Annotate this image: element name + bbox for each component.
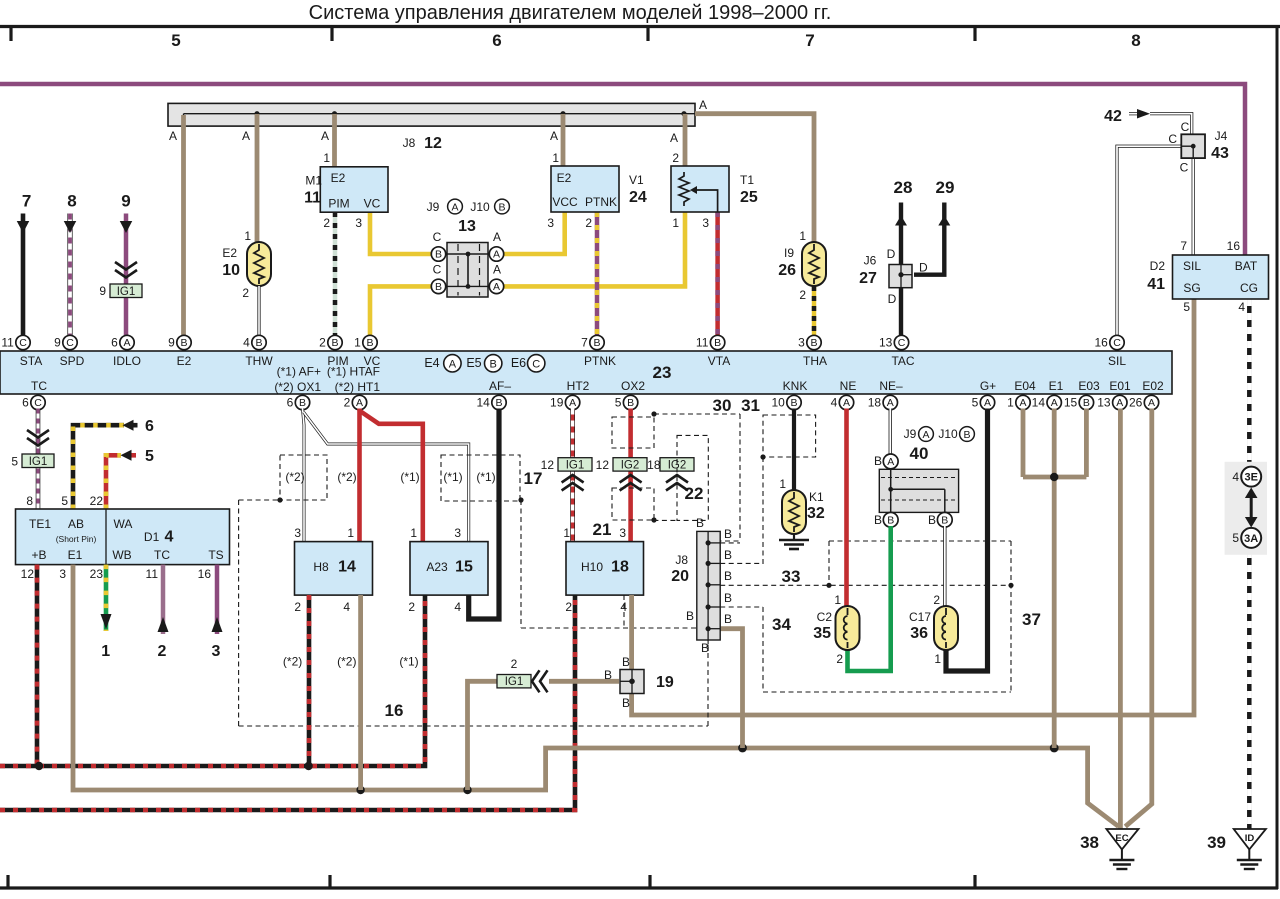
dashed net 33	[720, 584, 1011, 586]
dashed box (*2)	[280, 455, 327, 500]
svg-text:EC: EC	[1115, 833, 1128, 844]
svg-text:B: B	[941, 515, 948, 527]
wire IG1 connector to bus (brown)	[468, 681, 501, 790]
svg-text:3: 3	[212, 643, 221, 660]
svg-text:SG: SG	[1183, 281, 1200, 295]
svg-text:J4: J4	[1215, 129, 1228, 143]
svg-text:5: 5	[61, 494, 68, 508]
svg-text:18: 18	[647, 458, 661, 472]
svg-text:B: B	[686, 609, 694, 623]
svg-text:OX2: OX2	[621, 379, 645, 393]
svg-text:38: 38	[1080, 833, 1099, 852]
svg-text:B: B	[724, 548, 732, 562]
connector J4 43	[1181, 134, 1205, 158]
svg-text:11: 11	[696, 336, 709, 350]
svg-text:1: 1	[799, 229, 806, 243]
svg-text:A: A	[843, 397, 850, 409]
svg-text:IG1: IG1	[566, 460, 585, 472]
svg-text:C2: C2	[817, 610, 833, 624]
svg-text:4: 4	[831, 396, 838, 410]
svg-text:BAT: BAT	[1235, 259, 1258, 273]
svg-text:5: 5	[11, 455, 18, 469]
svg-text:18: 18	[868, 396, 882, 410]
svg-text:1: 1	[552, 151, 559, 165]
svg-text:PIM: PIM	[328, 197, 349, 211]
svg-text:1: 1	[347, 526, 354, 540]
wire green C2 pin2 to connector 40	[848, 526, 891, 671]
dashed box 34	[762, 607, 764, 692]
svg-text:18: 18	[611, 559, 629, 576]
svg-text:E1: E1	[1049, 379, 1064, 393]
svg-text:6: 6	[492, 31, 501, 50]
svg-text:IG1: IG1	[505, 676, 524, 688]
wire V1 PTNK to ECU (violet/yellow striped)	[595, 212, 600, 336]
wire ECU OX1 branch to A23 pin3 (white)	[304, 412, 469, 542]
wire 8 (SPD) violet/white striped	[67, 214, 72, 337]
svg-text:2: 2	[672, 151, 679, 165]
svg-text:PTNK: PTNK	[585, 195, 617, 209]
connector IG1 2 (horizontal)	[497, 675, 531, 688]
svg-text:3: 3	[454, 526, 461, 540]
svg-text:AF–: AF–	[489, 379, 511, 393]
svg-text:TS: TS	[208, 548, 223, 562]
svg-text:PTNK: PTNK	[584, 354, 616, 368]
svg-text:A: A	[569, 397, 576, 409]
svg-text:40: 40	[910, 444, 929, 463]
ground under K1	[793, 534, 795, 540]
svg-text:7: 7	[22, 192, 31, 211]
svg-text:A: A	[451, 202, 458, 214]
svg-text:AB: AB	[68, 517, 84, 531]
svg-text:E03: E03	[1078, 379, 1100, 393]
svg-text:A: A	[321, 129, 329, 143]
svg-text:J9: J9	[904, 427, 917, 441]
svg-text:1: 1	[323, 151, 330, 165]
svg-text:WB: WB	[112, 548, 131, 562]
svg-text:23: 23	[653, 363, 672, 382]
svg-text:19: 19	[656, 674, 674, 691]
svg-text:27: 27	[859, 270, 877, 287]
svg-text:C: C	[66, 337, 74, 349]
svg-text:13: 13	[458, 218, 476, 235]
svg-text:C: C	[19, 337, 27, 349]
component V1 24 box	[551, 166, 619, 212]
connector IG1 on wire 9	[115, 262, 137, 270]
wire H8 pin2 (black/red striped)	[307, 595, 312, 766]
component H10 18 box	[566, 542, 644, 596]
svg-text:A: A	[493, 263, 501, 277]
wire ECU E02 (brown)	[1125, 409, 1152, 827]
svg-text:28: 28	[894, 178, 913, 197]
svg-text:(*2): (*2)	[285, 470, 304, 484]
svg-text:12: 12	[424, 135, 442, 152]
wire D2 SG to ground bus (brown)	[632, 299, 1194, 715]
svg-text:3A: 3A	[1244, 533, 1258, 545]
pins 40 bottom B B	[883, 512, 898, 527]
svg-text:VCC: VCC	[552, 195, 578, 209]
bus junction dots	[254, 111, 259, 116]
wire ECU NE to C2 (red)	[844, 409, 849, 607]
wire ECU TC to TE1 (white/violet striped)	[36, 409, 41, 510]
svg-text:4: 4	[1232, 470, 1239, 484]
svg-text:2: 2	[836, 652, 843, 666]
svg-text:B: B	[810, 337, 817, 349]
svg-text:B: B	[963, 429, 970, 441]
svg-text:1: 1	[834, 593, 841, 607]
dashed link H10 to net17	[623, 595, 625, 628]
svg-text:3: 3	[547, 216, 554, 230]
svg-text:2: 2	[565, 600, 572, 614]
svg-text:THA: THA	[803, 354, 827, 368]
ECU block 23 band	[0, 351, 1172, 394]
wire ECU HT1 branch to A23 pin1 (red)	[360, 411, 423, 542]
svg-text:A: A	[123, 337, 130, 349]
svg-text:B: B	[696, 516, 704, 530]
wire ECU G+ to C17 pin1 (black)	[946, 409, 988, 672]
wire connector13 to V1 VCC (yellow)	[502, 212, 565, 254]
svg-text:ID: ID	[1245, 833, 1255, 844]
svg-text:14: 14	[476, 396, 490, 410]
svg-text:B: B	[604, 668, 612, 682]
wire J6 to ECU TAC (black)	[899, 288, 903, 336]
svg-text:3E: 3E	[1244, 472, 1257, 484]
svg-text:22: 22	[685, 484, 704, 503]
svg-text:1: 1	[354, 336, 361, 350]
svg-text:B: B	[874, 454, 882, 468]
svg-text:Система управления двигателем: Система управления двигателем моделей 19…	[309, 2, 832, 24]
svg-text:10: 10	[222, 262, 240, 279]
wire M1 PIM to ECU PIM (black/pale-green striped)	[333, 212, 338, 336]
svg-text:6: 6	[111, 336, 118, 350]
svg-text:41: 41	[1147, 276, 1165, 293]
wire J4 to ECU SIL (white)	[1117, 146, 1181, 336]
svg-text:M1: M1	[305, 174, 322, 188]
svg-text:1: 1	[779, 477, 786, 491]
svg-text:3: 3	[619, 526, 626, 540]
svg-text:23: 23	[90, 567, 104, 581]
svg-text:5: 5	[1232, 531, 1239, 545]
svg-text:B: B	[874, 513, 882, 527]
dashed box 16	[238, 500, 240, 726]
svg-text:HT2: HT2	[567, 379, 590, 393]
svg-text:C: C	[1168, 132, 1177, 146]
wire 5 (WA, red/yellow striped)	[106, 455, 121, 509]
svg-text:B: B	[331, 337, 338, 349]
svg-text:B: B	[724, 527, 732, 541]
wire E2 sensor to THW (white)	[257, 286, 260, 336]
svg-text:B: B	[366, 337, 373, 349]
svg-text:B: B	[180, 337, 187, 349]
wire bus to V1 pin1 (brown)	[561, 114, 566, 166]
svg-text:(Short Pin): (Short Pin)	[56, 534, 97, 544]
wire bus to M1 pin1 (brown)	[332, 114, 337, 167]
svg-text:1: 1	[934, 652, 941, 666]
component T1 25 box	[671, 166, 729, 212]
svg-text:C: C	[34, 397, 42, 409]
wire 9 (IDLO) violet	[124, 214, 129, 337]
svg-text:33: 33	[782, 567, 801, 586]
bottom ruler line	[0, 886, 1278, 889]
svg-text:THW: THW	[245, 354, 273, 368]
wire ECU HT2 to H10 pin1 (red/white striped)	[570, 409, 575, 542]
svg-text:17: 17	[524, 469, 543, 488]
wire 2 (TC, mauve)	[161, 565, 166, 634]
svg-text:2: 2	[408, 600, 415, 614]
svg-text:5: 5	[1183, 300, 1190, 314]
svg-text:(*1) HTAF: (*1) HTAF	[327, 365, 380, 379]
svg-text:A: A	[1019, 397, 1026, 409]
svg-text:3: 3	[59, 567, 66, 581]
svg-text:B: B	[724, 612, 732, 626]
svg-text:TC: TC	[154, 548, 170, 562]
svg-text:IDLO: IDLO	[113, 354, 141, 368]
svg-text:IG1: IG1	[29, 456, 48, 468]
svg-text:(*1): (*1)	[400, 470, 419, 484]
sensor I9 26	[802, 242, 826, 286]
ground 39 ID	[1234, 829, 1266, 849]
svg-text:29: 29	[936, 178, 955, 197]
svg-text:8: 8	[67, 192, 76, 211]
svg-text:37: 37	[1022, 610, 1041, 629]
svg-text:B: B	[790, 397, 797, 409]
svg-text:J8: J8	[675, 553, 688, 567]
svg-text:3: 3	[702, 216, 709, 230]
svg-text:V1: V1	[629, 173, 644, 187]
svg-text:B: B	[490, 359, 497, 371]
svg-text:NE–: NE–	[879, 379, 903, 393]
svg-text:2: 2	[933, 593, 940, 607]
svg-text:20: 20	[671, 568, 689, 585]
sensor K1 32 knock sensor	[782, 490, 806, 534]
svg-text:(*1): (*1)	[399, 655, 418, 669]
svg-text:(*1): (*1)	[443, 470, 462, 484]
svg-text:14: 14	[1032, 396, 1046, 410]
svg-text:8: 8	[1131, 31, 1140, 50]
svg-text:B: B	[622, 655, 630, 669]
svg-text:5: 5	[615, 396, 622, 410]
sensor E2 10	[247, 242, 271, 286]
svg-text:B: B	[724, 569, 732, 583]
svg-text:I9: I9	[784, 246, 794, 260]
wire T1 pin3 to ECU VTA (red/violet striped)	[715, 212, 720, 336]
svg-text:13: 13	[1097, 396, 1111, 410]
wire 29 (black up arrow)	[914, 203, 944, 275]
svg-text:12: 12	[21, 567, 35, 581]
svg-text:A: A	[356, 397, 363, 409]
svg-text:A: A	[493, 249, 500, 261]
wire ECU OX2 to H10 pin3 (red)	[628, 409, 633, 542]
svg-text:22: 22	[90, 494, 104, 508]
svg-text:A: A	[922, 429, 929, 441]
bottom bus 2: H10 pin2 black/red striped	[0, 595, 575, 810]
wire connector40 to green (C2)	[888, 519, 893, 525]
svg-text:24: 24	[629, 189, 647, 206]
wire 7 (STA) black	[21, 214, 26, 337]
svg-text:9: 9	[121, 192, 130, 211]
svg-text:12: 12	[541, 458, 555, 472]
svg-text:1: 1	[563, 526, 570, 540]
svg-text:E2: E2	[331, 171, 346, 185]
svg-text:C: C	[1180, 161, 1189, 175]
svg-text:B: B	[498, 202, 505, 214]
svg-text:31: 31	[741, 396, 760, 415]
svg-text:3: 3	[798, 336, 805, 350]
svg-text:9: 9	[168, 336, 175, 350]
connector IG2 alternate	[660, 458, 694, 471]
svg-text:C: C	[433, 263, 442, 277]
connector D1 4 box	[16, 509, 230, 565]
svg-text:B: B	[299, 397, 306, 409]
svg-text:B: B	[435, 281, 442, 293]
dashed box 37	[915, 540, 1011, 542]
svg-text:A: A	[887, 456, 894, 468]
svg-text:5: 5	[145, 448, 154, 465]
svg-text:1: 1	[410, 526, 417, 540]
svg-text:8: 8	[26, 494, 33, 508]
svg-text:WA: WA	[114, 517, 133, 531]
wire J4 to D2 SIL pin7 (white)	[1192, 158, 1195, 255]
svg-text:(*2) OX1: (*2) OX1	[274, 380, 321, 394]
svg-text:E2: E2	[557, 171, 572, 185]
connector 13 pins B B A A	[431, 247, 445, 261]
svg-text:A: A	[1051, 397, 1058, 409]
svg-text:TAC: TAC	[891, 354, 914, 368]
connector IG1 on HT2 wire	[558, 458, 592, 471]
svg-text:G+: G+	[980, 379, 996, 393]
svg-text:SIL: SIL	[1108, 354, 1126, 368]
svg-text:36: 36	[910, 625, 928, 642]
svg-text:19: 19	[550, 396, 564, 410]
svg-text:9: 9	[99, 284, 106, 298]
svg-text:STA: STA	[20, 354, 42, 368]
connector 13 J9/J10	[447, 243, 488, 298]
svg-text:(*2): (*2)	[283, 655, 302, 669]
svg-text:IG2: IG2	[621, 460, 640, 472]
svg-text:16: 16	[385, 701, 404, 720]
svg-text:1: 1	[101, 643, 110, 660]
svg-text:39: 39	[1207, 833, 1226, 852]
svg-text:A: A	[670, 131, 678, 145]
svg-text:NE: NE	[840, 379, 857, 393]
component A23 15 box	[410, 542, 488, 596]
svg-text:15: 15	[455, 559, 473, 576]
svg-text:TE1: TE1	[29, 517, 51, 531]
svg-text:VTA: VTA	[708, 354, 730, 368]
wire connector13 to T1 pin1 (yellow)	[497, 212, 686, 286]
svg-text:1: 1	[1007, 396, 1014, 410]
svg-text:E01: E01	[1109, 379, 1131, 393]
wire bus to ECU E2 pin (brown)	[181, 115, 186, 336]
svg-text:C: C	[433, 230, 442, 244]
svg-text:A: A	[984, 397, 991, 409]
sensor C2 35 (crank coil)	[836, 606, 860, 650]
svg-text:C: C	[1113, 337, 1121, 349]
wire ECU OX1 to H8 pin3 (white)	[303, 409, 305, 542]
svg-text:2: 2	[799, 288, 806, 302]
wire H8 pin4 (brown)	[358, 595, 363, 790]
dashed box 31	[763, 415, 816, 457]
svg-text:25: 25	[740, 189, 758, 206]
svg-text:A: A	[550, 129, 558, 143]
svg-text:D: D	[888, 292, 897, 306]
svg-text:TC: TC	[31, 379, 47, 393]
svg-text:A: A	[449, 359, 457, 371]
svg-text:C17: C17	[909, 610, 931, 624]
connector IG2 on OX2 wire	[613, 458, 647, 471]
svg-text:16: 16	[1227, 239, 1241, 253]
ECU top pins	[16, 335, 30, 349]
svg-text:E2: E2	[222, 246, 237, 260]
svg-text:7: 7	[805, 31, 814, 50]
svg-text:E4: E4	[424, 356, 439, 370]
svg-text:6: 6	[145, 418, 154, 435]
svg-text:(*2): (*2)	[337, 655, 356, 669]
svg-text:B: B	[622, 696, 630, 710]
component M1 11 box	[320, 167, 388, 212]
brown ground bus from E1	[73, 565, 1119, 827]
svg-text:E02: E02	[1142, 379, 1164, 393]
connector IG1 on TC wire	[27, 430, 49, 438]
dashed net 16/17 links	[239, 499, 280, 501]
connector D2 41 box	[1173, 255, 1269, 299]
svg-text:CG: CG	[1240, 281, 1258, 295]
svg-text:B: B	[887, 515, 894, 527]
svg-text:A: A	[493, 281, 500, 293]
svg-text:21: 21	[593, 520, 612, 539]
svg-text:2: 2	[319, 336, 326, 350]
wire M1 VC yellow to connector 13	[370, 212, 433, 254]
svg-text:D: D	[887, 247, 896, 261]
svg-text:11: 11	[304, 190, 321, 207]
component H8 14 box	[295, 542, 373, 596]
svg-text:E04: E04	[1014, 379, 1036, 393]
svg-text:5: 5	[171, 31, 180, 50]
wire D2 CG (black/white striped) down to ID ground	[1247, 299, 1252, 829]
svg-text:15: 15	[1064, 396, 1078, 410]
svg-text:16: 16	[1094, 336, 1108, 350]
symbols 3E 3A on CG wire	[1225, 462, 1267, 555]
wire violet feed (top horizontal to BAT)	[0, 84, 1245, 255]
bottom bus 1: A23 pin2 black/red striped	[0, 595, 425, 766]
wire bus to E2 sensor 10 (brown)	[255, 114, 260, 243]
svg-text:6: 6	[287, 396, 294, 410]
svg-text:2: 2	[585, 216, 592, 230]
svg-text:E1: E1	[68, 548, 83, 562]
svg-text:4: 4	[1238, 300, 1245, 314]
svg-text:12: 12	[596, 458, 610, 472]
svg-text:(*1) AF+: (*1) AF+	[277, 365, 321, 379]
svg-text:J8: J8	[403, 136, 416, 150]
svg-text:D1: D1	[144, 530, 160, 544]
svg-text:D: D	[919, 261, 928, 275]
wire ECU NE- to connector 40 (white)	[889, 409, 892, 456]
svg-text:1: 1	[672, 216, 679, 230]
svg-text:3: 3	[294, 526, 301, 540]
svg-text:A: A	[169, 129, 177, 143]
svg-text:C: C	[1181, 120, 1190, 134]
svg-text:A: A	[493, 230, 501, 244]
wire ECU E01 (brown)	[1118, 409, 1123, 832]
svg-text:(*2) HT1: (*2) HT1	[335, 380, 381, 394]
svg-text:B: B	[714, 337, 721, 349]
ECU bottom pins	[31, 395, 45, 409]
connector J8 20 (joint)	[719, 629, 742, 748]
svg-text:SPD: SPD	[60, 354, 85, 368]
svg-text:11: 11	[1, 336, 14, 350]
svg-text:4: 4	[454, 600, 461, 614]
svg-text:B: B	[627, 397, 634, 409]
wire I9 to ECU THA (yellow/black striped)	[812, 286, 817, 336]
